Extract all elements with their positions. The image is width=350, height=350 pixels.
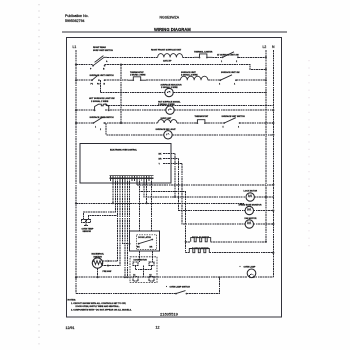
svg-text:WIRING DIAGRAM: WIRING DIAGRAM — [154, 27, 191, 32]
wire lock motor to N — [254, 196, 273, 198]
svg-text:12: 12 — [156, 326, 160, 330]
svg-text:SURF UNIT SWITCH: SURF UNIT SWITCH — [93, 50, 113, 52]
wire interbox 2 — [151, 251, 153, 262]
wire row D to L2 — [173, 92, 266, 94]
svg-text:*: * — [240, 265, 241, 269]
lamp hot surface signal row E — [158, 101, 181, 115]
switch S1 right front surface unit switch — [90, 46, 113, 70]
resistor broil element — [185, 237, 211, 243]
perforation left — [38, 4, 40, 348]
svg-text:ELECTRONIC OVEN CONTROL: ELECTRONIC OVEN CONTROL — [110, 150, 138, 152]
pin stub Y — [159, 164, 183, 166]
wire row B to L2 — [187, 65, 266, 70]
wire ignitor feed 1 — [108, 181, 118, 261]
wire row C from L1 — [75, 79, 77, 81]
switch hot surface light row E — [89, 97, 273, 111]
thermal limiter row F — [194, 115, 208, 124]
wire vertical x146.5 — [146, 181, 148, 203]
wire x124.9 to bottom rail — [124, 181, 126, 277]
wire row E upper signal wire — [105, 104, 274, 105]
notes — [68, 300, 132, 312]
wire row B from L1 — [75, 64, 77, 66]
svg-text:DOOR MOTOR: DOOR MOTOR — [134, 260, 148, 262]
thermostat row C — [128, 71, 146, 81]
thermal limiter row A — [194, 51, 213, 59]
wire L1 rail y203.3 — [75, 202, 77, 204]
switch at surface unit sw — [217, 52, 239, 63]
switch S2 surface unit switch row C — [90, 74, 115, 86]
lamp oven lamp — [240, 265, 257, 278]
wire — [146, 79, 180, 81]
svg-text:HOT SURFACE SIGNAL: HOT SURFACE SIGNAL — [158, 101, 181, 104]
wire speed bake row — [179, 159, 246, 211]
border frame — [67, 38, 282, 317]
svg-text:BAKE/BROIL: BAKE/BROIL — [92, 253, 105, 256]
wire ignitor feed 2 — [108, 181, 120, 266]
wire vertical tie x121 — [120, 65, 122, 123]
svg-text:ANTI-TIP: ANTI-TIP — [163, 60, 172, 63]
switch oven lamp switch — [166, 285, 190, 295]
lamp speed bake monitor — [239, 203, 263, 214]
wire vertical x112.9 to rail — [112, 181, 114, 203]
op box U1 electronic oven control — [80, 143, 171, 183]
wire L1 bus — [75, 50, 77, 294]
svg-text:5995362794: 5995362794 — [65, 19, 85, 23]
svg-text:*: * — [166, 285, 167, 289]
svg-text:SURFACE UNIT SWITCH: SURFACE UNIT SWITCH — [90, 74, 115, 77]
resistor warmer coil row B — [163, 60, 172, 63]
wire door latch box pin 1 — [138, 181, 140, 231]
svg-text:SURFACE UNIT SWITCH: SURFACE UNIT SWITCH — [222, 115, 246, 118]
pin stub BR — [159, 159, 179, 161]
wire — [212, 56, 221, 58]
wire row F lower branch — [106, 123, 164, 135]
svg-text:SURFACE INDICATOR: SURFACE INDICATOR — [161, 84, 183, 87]
svg-text:OVEN LAMP SWITCH: OVEN LAMP SWITCH — [170, 286, 191, 289]
switch surface unit switch right row F — [222, 115, 246, 128]
wire — [183, 56, 194, 58]
svg-text:1 WORK 1 WIRE: 1 WORK 1 WIRE — [130, 75, 146, 77]
wire rail y185.4 to N — [137, 184, 273, 186]
svg-text:2: 2 — [100, 129, 101, 131]
wire circuit to lock motor — [144, 181, 246, 197]
wire bake to N — [209, 252, 273, 254]
pin stub BK — [159, 154, 176, 156]
wire row F from L1 — [75, 122, 77, 124]
wire fan row — [182, 164, 245, 225]
junction row B x122.5 — [120, 64, 122, 66]
wire — [208, 79, 219, 81]
wire bend y191.6 — [139, 181, 185, 253]
svg-text:L2: L2 — [263, 45, 267, 49]
wire x127.3 to bottom rail — [126, 181, 128, 277]
wire row C to L2 — [236, 79, 266, 81]
wire branch to indicator row D — [100, 80, 164, 92]
wire fan to N — [253, 223, 273, 225]
svg-text:THERMOSTAT: THERMOSTAT — [130, 71, 144, 74]
resistor bake element — [186, 247, 210, 253]
svg-text:2 SIGNAL 2 WIRE: 2 SIGNAL 2 WIRE — [158, 103, 175, 106]
wire N bus — [272, 50, 274, 277]
relay box door latch switch — [130, 231, 160, 251]
svg-text:SURFACE UNIT SW: SURFACE UNIT SW — [221, 71, 240, 74]
svg-text:5: 5 — [223, 126, 224, 128]
wire latch feed left — [123, 181, 130, 244]
svg-text:FAN MOTOR: FAN MOTOR — [245, 217, 258, 220]
svg-text:DOOR OPEN, SUPPLY WIRE AND NEU: DOOR OPEN, SUPPLY WIRE AND NEUTRAL. — [76, 305, 120, 308]
lamp surface ind light row F — [156, 128, 177, 139]
svg-text:L1: L1 — [73, 45, 77, 49]
wire row E to N — [174, 109, 273, 111]
svg-text:2 SIGNAL 2 WIRE: 2 SIGNAL 2 WIRE — [91, 100, 109, 103]
svg-text:NGSE3WZA: NGSE3WZA — [160, 16, 180, 20]
resistor surface unit row F — [158, 118, 177, 123]
wire bottom rail y293.6 with riser — [76, 293, 176, 295]
resistor right front surface unit element — [151, 48, 183, 57]
resistor ignitor oven burner — [92, 253, 112, 279]
svg-text:6: 6 — [238, 126, 239, 128]
svg-text:Publication No.: Publication No. — [65, 14, 89, 18]
svg-text:OVEN LAMP: OVEN LAMP — [244, 266, 257, 269]
svg-text:RIGHT FRONT SURFACE UNIT: RIGHT FRONT SURFACE UNIT — [151, 48, 182, 51]
svg-text:1: 1 — [95, 126, 96, 128]
sensor RTD oven temp sensor — [82, 216, 118, 234]
svg-text:21635519: 21635519 — [160, 311, 179, 316]
svg-text:DOOR LATCH: DOOR LATCH — [138, 236, 151, 239]
switch surface unit switch row F — [90, 116, 115, 131]
switch surface unit sw row C — [219, 71, 240, 86]
svg-text:12/91: 12/91 — [66, 326, 75, 330]
svg-text:1. CIRCUIT SHOWN WITH ALL CON: 1. CIRCUIT SHOWN WITH ALL CONTROLS SET T… — [71, 302, 126, 305]
svg-text:THERMAL LIMITER: THERMAL LIMITER — [194, 51, 213, 54]
lamp lock motor — [244, 191, 258, 202]
wire interbox 1 — [139, 251, 141, 262]
wire row A to L2 — [238, 56, 266, 58]
wire L2 bus — [265, 50, 267, 242]
wire row A upper — [107, 56, 158, 58]
svg-text:C1: C1 — [133, 274, 135, 276]
wire sensor branch — [84, 181, 116, 220]
wire broil to L2 — [211, 241, 266, 243]
wire row E from L1 — [75, 109, 77, 111]
svg-text:THERMOSTAT: THERMOSTAT — [195, 115, 209, 118]
svg-text:LOCK MOTOR: LOCK MOTOR — [244, 191, 258, 193]
svg-text:SURFACE UNIT: SURFACE UNIT — [181, 71, 197, 74]
relay box door lock motor — [130, 257, 157, 283]
wire speed bake to N — [253, 210, 273, 212]
wire row F lower to N — [172, 134, 273, 136]
lamp fan motor — [245, 217, 258, 228]
resistor surface unit row C — [180, 71, 208, 80]
svg-text:SPEED BAKE MONITOR: SPEED BAKE MONITOR — [239, 203, 263, 206]
wire row F — [177, 122, 194, 124]
wire door latch box pin 2 — [150, 181, 152, 231]
svg-text:C2: C2 — [149, 274, 151, 276]
svg-text:RIGHT REAR: RIGHT REAR — [93, 46, 106, 49]
svg-text:PRE 60W: PRE 60W — [103, 271, 112, 273]
header rule — [62, 31, 287, 33]
lamp surface indicator light row D — [161, 84, 183, 97]
svg-text:SENSOR: SENSOR — [83, 231, 92, 233]
svg-text:OVEN TEMP: OVEN TEMP — [82, 229, 94, 231]
wire x129.7 to latch box corner — [129, 181, 131, 231]
wire bottom rail y277.2 — [75, 276, 77, 278]
svg-text:HOT SURFACE LIGHT SW: HOT SURFACE LIGHT SW — [89, 97, 115, 100]
wire lock motor feed vertical — [174, 154, 176, 198]
connector P1 comb — [110, 176, 154, 181]
svg-text:2. COMPONENTS WITH * DO NOT A: 2. COMPONENTS WITH * DO NOT APPEAR ON AL… — [71, 308, 132, 311]
svg-text:SURFACE UNIT SWITCH: SURFACE UNIT SWITCH — [90, 116, 115, 119]
perforation right — [308, 60, 310, 250]
svg-text:NOTES:: NOTES: — [68, 300, 77, 302]
